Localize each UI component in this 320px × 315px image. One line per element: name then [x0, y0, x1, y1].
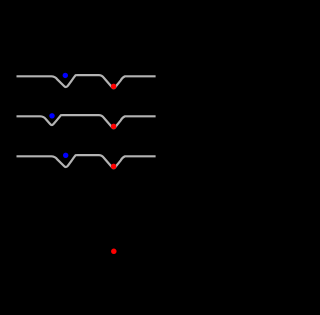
red particle frame 2 [111, 124, 117, 129]
potential curve frame 3 [17, 155, 156, 168]
potential curve frame 2 [17, 115, 156, 128]
blue particle frame 3 [63, 153, 68, 158]
potential curve frame 1 [17, 75, 156, 88]
blue particle frame 1 [63, 73, 68, 78]
red particle frame 1 [111, 84, 117, 90]
blue particle frame 2 [49, 113, 54, 118]
isolated red particle bottom [111, 249, 117, 255]
red particle frame 3 [111, 164, 117, 170]
